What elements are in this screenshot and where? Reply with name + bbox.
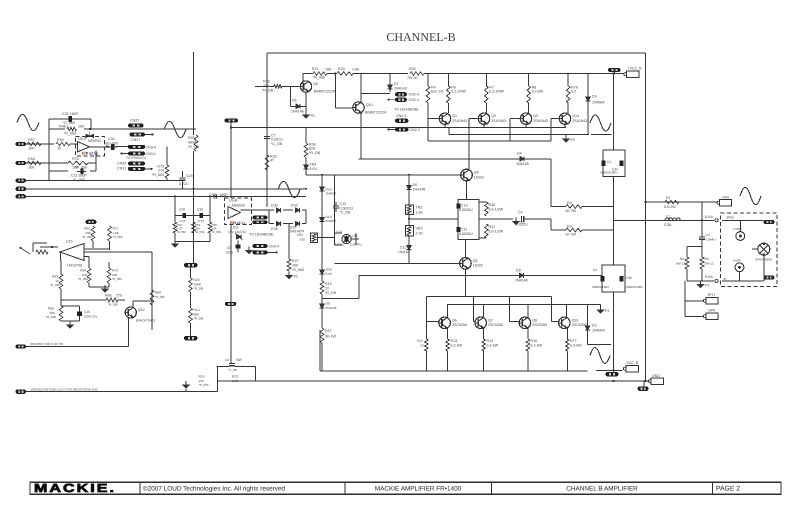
wire R16 bottom — [527, 351, 529, 371]
wire minus VCC vertical — [613, 292, 615, 372]
svg-text:CHANNEL-B: CHANNEL-B — [386, 30, 455, 44]
junction — [408, 218, 410, 220]
wire Q3 base — [510, 118, 520, 120]
wire — [217, 365, 218, 367]
wire — [408, 190, 410, 205]
label R19 — [199, 375, 209, 388]
resistor R71 — [313, 72, 327, 76]
resistor R68 — [150, 290, 154, 305]
label R68 — [155, 291, 164, 299]
connector J input4 — [16, 187, 27, 191]
svg-text:R14: R14 — [487, 339, 494, 343]
svg-text:D4: D4 — [517, 152, 522, 156]
svg-text:+SPK: +SPK — [721, 196, 730, 200]
sine waveform — [590, 347, 610, 363]
svg-text:D5: D5 — [326, 302, 330, 306]
wire D7 top — [389, 74, 391, 85]
wire — [596, 369, 623, 371]
wire base bus — [428, 140, 551, 142]
wire bottom long bus — [218, 380, 650, 382]
svg-text:270: 270 — [116, 294, 122, 298]
svg-text:R30: R30 — [489, 203, 496, 207]
wire Q10 collector — [360, 74, 362, 102]
label C1 value — [600, 171, 618, 175]
label R63 — [50, 275, 60, 288]
label D13 — [326, 188, 337, 196]
wire zobel left — [686, 247, 688, 257]
svg-text:L1: L1 — [666, 215, 670, 219]
wire — [61, 320, 80, 322]
svg-text:CN3-4: CN3-4 — [146, 145, 156, 149]
svg-text:TO LED48(OB): TO LED48(OB) — [394, 108, 419, 112]
ground zobel — [697, 281, 709, 288]
resistor R4h — [566, 205, 582, 209]
label NE5532b — [232, 204, 245, 208]
wire to CN34 — [116, 146, 129, 148]
input network U15 — [19, 243, 58, 254]
svg-text:15032: 15032 — [474, 175, 484, 179]
connector J input2 — [16, 161, 27, 165]
wire Q15 collector — [566, 304, 568, 317]
svg-text:*R_069: *R_069 — [195, 230, 205, 234]
resistor R1 — [665, 200, 679, 204]
label R13 — [451, 339, 463, 348]
label R4h — [565, 201, 577, 213]
wire — [479, 237, 486, 239]
svg-text:P1: P1 — [705, 284, 709, 288]
label R28 — [262, 80, 274, 93]
resistor R20 — [189, 278, 193, 292]
resistor R31 — [485, 224, 489, 238]
sine waveform — [17, 114, 39, 130]
ground right of Q15 — [597, 306, 609, 313]
svg-text:5.6-1/2W: 5.6-1/2W — [489, 208, 504, 212]
label C6 — [226, 246, 233, 255]
connector plug -SPK — [704, 309, 719, 320]
wire — [118, 299, 125, 301]
resistor R4 — [426, 86, 443, 104]
label *C_065 — [63, 121, 75, 125]
sine waveform — [278, 181, 300, 197]
svg-text:NE5532: NE5532 — [232, 204, 245, 208]
svg-text:−: − — [77, 246, 79, 250]
svg-text:JP: JP — [723, 277, 727, 281]
svg-text:R70: R70 — [72, 157, 79, 161]
label R5h — [565, 225, 577, 237]
svg-text:TO PROP.CU: TO PROP.CU — [126, 156, 147, 160]
ground near C4 — [513, 218, 525, 225]
svg-text:3W-12: 3W-12 — [676, 262, 685, 266]
wire long bus y189 — [26, 188, 307, 190]
connector bar x231 — [225, 118, 239, 122]
connector CN3-6 — [253, 220, 268, 224]
label D9 — [515, 269, 528, 283]
svg-text:1=0R+: 1=0R+ — [733, 227, 742, 231]
svg-text:1N4148: 1N4148 — [413, 188, 426, 192]
wire — [92, 241, 94, 248]
capacitor C7 — [264, 133, 283, 146]
resistor R72 — [107, 268, 111, 283]
label C12 — [340, 202, 354, 215]
connector plug +SPK — [717, 196, 732, 206]
label R16 — [531, 339, 543, 348]
svg-text:D7: D7 — [394, 82, 399, 86]
svg-text:5.6-2W: 5.6-2W — [664, 205, 676, 209]
svg-text:10K: 10K — [28, 166, 35, 170]
connector CN3-0 — [253, 250, 278, 254]
svg-text:*R_DB: *R_DB — [194, 287, 203, 291]
wire — [479, 218, 513, 220]
wire Q1 base — [428, 118, 439, 120]
wire L1 line — [614, 219, 715, 221]
label D5 — [326, 302, 337, 311]
wire — [107, 146, 110, 148]
resistor R29 — [337, 72, 353, 76]
svg-text:*R_DB: *R_DB — [194, 317, 203, 321]
transistor Q4 — [461, 169, 484, 181]
ground on return line — [183, 381, 189, 388]
svg-text:MACKIE AMPLIFIER FR•1400: MACKIE AMPLIFIER FR•1400 — [375, 486, 462, 493]
label C2 value — [592, 285, 610, 289]
wire C31 right — [90, 119, 92, 129]
wire — [701, 247, 703, 257]
capacitor C29 — [179, 171, 193, 189]
wire C31 left — [48, 119, 50, 144]
wire emitter stub — [444, 124, 446, 127]
resistor R63 — [59, 274, 63, 289]
diode D13 — [320, 187, 325, 197]
wire — [88, 162, 96, 164]
svg-text:P200: P200 — [705, 275, 713, 279]
svg-text:CN31: CN31 — [117, 167, 126, 171]
wire D8 top — [408, 174, 410, 186]
svg-text:3300U/100V: 3300U/100V — [592, 285, 610, 289]
label D18 — [326, 215, 337, 223]
wire — [235, 365, 256, 367]
wire Q8 base drop — [509, 297, 511, 322]
resistor R5h — [566, 228, 582, 232]
transistor Q1 — [439, 113, 467, 124]
transistor Q9 — [300, 81, 317, 92]
svg-text:B04BT2222A: B04BT2222A — [365, 111, 387, 115]
wire — [408, 215, 410, 226]
svg-text:2SA1943: 2SA1943 — [452, 119, 467, 123]
svg-text:1N4148: 1N4148 — [398, 250, 409, 254]
svg-text:*R_065: *R_065 — [78, 277, 88, 281]
svg-text:C8: C8 — [225, 358, 229, 362]
svg-text:2SA1943: 2SA1943 — [533, 119, 548, 123]
wire to U5-A — [70, 143, 77, 145]
wire left rail upper — [193, 52, 195, 135]
wire — [763, 256, 765, 281]
wire — [230, 258, 232, 302]
svg-text:0.2-2/9W: 0.2-2/9W — [489, 90, 504, 94]
junction — [612, 380, 614, 382]
transistor Q15 — [559, 317, 587, 329]
wire servo bottom — [175, 233, 210, 242]
connector CN31 — [128, 167, 153, 171]
label TO LED48 b — [249, 233, 274, 237]
wire to Q10 base — [334, 74, 336, 109]
resistor R13 — [446, 339, 450, 351]
wire Q8 collector — [527, 304, 529, 317]
wire Q9 emitter — [305, 92, 307, 113]
wire — [334, 233, 336, 245]
wire Q9 base left — [255, 85, 274, 87]
diode D7 — [388, 82, 393, 92]
connector plug -VCC_B — [624, 361, 639, 372]
wire to servo bar — [193, 242, 195, 262]
svg-text:PAGE 2: PAGE 2 — [716, 486, 740, 493]
svg-text:+VCC_B: +VCC_B — [628, 67, 643, 71]
svg-text:R5: R5 — [567, 225, 572, 229]
wire Q4 emitter — [466, 181, 468, 200]
wire D3 top — [587, 74, 589, 97]
wire Q9 base — [282, 85, 301, 87]
wire — [290, 105, 296, 107]
wire — [269, 209, 274, 211]
wire — [335, 244, 343, 246]
label R71b — [113, 227, 123, 240]
transistor Q3 — [520, 113, 548, 124]
wire — [356, 238, 359, 240]
transistor Q14 — [559, 113, 587, 124]
connector CN3-4 — [128, 145, 156, 150]
label JP — [723, 277, 727, 281]
transistor Q5 — [460, 258, 483, 270]
wire — [550, 219, 552, 230]
svg-text:+: + — [79, 148, 81, 152]
label R26 — [407, 67, 418, 80]
dashed output box — [721, 213, 778, 287]
svg-text:R16: R16 — [531, 339, 538, 343]
wire — [89, 286, 109, 288]
svg-text:Q5: Q5 — [473, 259, 478, 263]
wire feedback bus — [84, 128, 196, 130]
wire — [722, 219, 740, 221]
svg-text:1N4004: 1N4004 — [592, 329, 605, 333]
wire Q7 base drop — [473, 297, 475, 322]
label *R_065 — [64, 132, 76, 136]
resistor R64 — [28, 157, 42, 169]
svg-text:R25: R25 — [188, 136, 195, 140]
svg-text:1K-7W: 1K-7W — [565, 233, 577, 237]
wire Q10 emitter — [360, 113, 362, 159]
svg-text:6.2-5W: 6.2-5W — [451, 344, 463, 348]
footer bar — [30, 482, 781, 494]
svg-text:GND: GND — [652, 374, 660, 378]
wire return line — [26, 391, 218, 393]
svg-text:1N4148: 1N4148 — [326, 306, 337, 310]
svg-text:U5-A: U5-A — [78, 137, 87, 141]
connector plug GND — [649, 374, 664, 385]
wire sine overline — [588, 344, 612, 346]
wire left rail lower — [193, 151, 195, 263]
svg-text:2=0R-: 2=0R- — [733, 259, 742, 263]
svg-text:C1: C1 — [607, 160, 611, 164]
svg-text:*R_DB: *R_DB — [262, 89, 274, 93]
svg-text:R77: R77 — [570, 339, 577, 343]
wire — [85, 249, 110, 257]
svg-text:0.2-2/9W: 0.2-2/9W — [451, 90, 466, 94]
wire — [358, 275, 360, 298]
label R3 — [705, 257, 714, 266]
wire inv input — [95, 151, 97, 164]
wire — [302, 223, 306, 225]
svg-text:*R_065: *R_065 — [108, 303, 118, 307]
wire Q2 base — [469, 118, 478, 120]
terminal E200 — [705, 275, 718, 283]
wire emitter stub — [564, 124, 566, 127]
connector J input3 — [16, 178, 27, 182]
svg-text:47K: 47K — [263, 84, 270, 88]
wire — [567, 74, 569, 87]
connector J input5 — [16, 194, 27, 198]
wire Q12 emitter — [128, 318, 130, 347]
svg-text:6.2-5W: 6.2-5W — [570, 344, 582, 348]
resistor R73 — [152, 165, 169, 179]
svg-text:5.6V: 5.6V — [310, 167, 318, 171]
svg-text:R48: R48 — [59, 125, 66, 129]
resistor R7 — [485, 86, 505, 104]
box C2 — [602, 265, 625, 292]
wire Q9 collector — [302, 74, 304, 81]
connector CN2-4 lower — [387, 98, 418, 102]
svg-text:R28: R28 — [263, 80, 270, 84]
svg-text:D11: D11 — [400, 246, 406, 250]
label D32 — [291, 204, 298, 208]
wire — [61, 299, 106, 301]
svg-text:*R_DB: *R_DB — [188, 145, 200, 149]
resistor R33 — [265, 155, 276, 171]
svg-text:*R_065: *R_065 — [112, 277, 122, 281]
wire — [528, 74, 530, 87]
svg-text:*R_065: *R_065 — [50, 283, 60, 287]
connector CN32 — [128, 162, 145, 166]
wire — [48, 144, 50, 181]
svg-text:3300U/100V: 3300U/100V — [600, 171, 618, 175]
wire — [582, 206, 614, 208]
svg-text:3300U/100V: 3300U/100V — [626, 285, 644, 289]
connector CN27 lower — [130, 133, 154, 143]
zener ZD3 — [320, 267, 325, 277]
ground near C6 — [246, 247, 258, 254]
label U5-A — [78, 137, 87, 141]
svg-text:2SC5200: 2SC5200 — [572, 323, 587, 327]
wire Q4 collector — [468, 141, 470, 170]
ground servo — [172, 242, 178, 248]
binding post 2 — [733, 259, 744, 272]
wire — [361, 73, 390, 75]
label NE5532 — [88, 139, 101, 143]
label D34 — [271, 227, 278, 231]
svg-text:56P: 56P — [236, 358, 243, 362]
wire — [108, 262, 110, 268]
wire R12 top — [425, 322, 427, 339]
capacitor C4 — [513, 211, 551, 227]
transistor Q6 — [439, 317, 467, 329]
svg-text:2SA1943: 2SA1943 — [572, 119, 587, 123]
label R66 — [105, 294, 122, 298]
binding post 1 — [733, 227, 745, 240]
connector return — [16, 390, 27, 394]
trimmer TR2 — [406, 205, 424, 215]
label Q12 part — [136, 319, 155, 323]
wire — [427, 119, 429, 141]
ground under Q9 — [303, 111, 315, 118]
svg-text:10U-50V: 10U-50V — [104, 141, 119, 145]
label ZD3 — [326, 268, 334, 276]
wire E line — [687, 280, 714, 282]
svg-text:C4: C4 — [518, 211, 523, 215]
capacitor C11 — [77, 169, 86, 175]
wire — [701, 269, 703, 281]
label ZD4 — [310, 163, 318, 172]
diode D18 — [320, 215, 325, 225]
svg-text:Q6: Q6 — [452, 318, 457, 322]
svg-text:CN3-1: CN3-1 — [146, 152, 156, 156]
capacitor C1 — [602, 160, 612, 166]
wire bridge in — [241, 209, 270, 211]
sine waveform — [740, 187, 761, 204]
svg-text:Q7: Q7 — [488, 318, 493, 322]
svg-text:1K: 1K — [57, 147, 62, 151]
label R72 — [112, 269, 122, 282]
svg-text:Q12: Q12 — [138, 308, 145, 312]
svg-text:P1: P1 — [605, 309, 609, 313]
label R10 — [194, 308, 203, 321]
svg-text:6.2-5W: 6.2-5W — [487, 344, 499, 348]
wire mid y219 — [409, 218, 458, 220]
resistor R17 — [320, 328, 324, 343]
wire bus y275 — [359, 274, 602, 276]
svg-text:COIL: COIL — [664, 223, 672, 227]
wire speaker plus — [646, 201, 717, 203]
ground under R27 — [286, 272, 298, 279]
label R65 — [46, 307, 56, 320]
svg-text:22: 22 — [325, 287, 329, 291]
svg-text:1N4148: 1N4148 — [516, 162, 529, 166]
resistor R52 — [192, 222, 205, 234]
wire Q15 base drop — [550, 297, 552, 322]
svg-text:R59: R59 — [57, 138, 64, 142]
svg-text:U5-B: U5-B — [229, 199, 238, 203]
svg-text:*C_DB: *C_DB — [340, 211, 352, 215]
wire — [643, 381, 645, 388]
svg-text:*R_065: *R_065 — [152, 173, 164, 177]
junction — [645, 201, 647, 203]
svg-text:3W-12: 3W-12 — [705, 262, 714, 266]
wire Q6 base drop — [425, 297, 427, 322]
svg-text:6.2-5W: 6.2-5W — [531, 344, 543, 348]
wire Q7 collector — [482, 304, 484, 317]
ground under R72 — [102, 285, 108, 292]
svg-text:D6: D6 — [413, 183, 418, 187]
capacitor C36b — [620, 276, 633, 282]
capacitor C30 — [197, 208, 204, 224]
svg-text:C28: C28 — [179, 208, 185, 212]
wire — [701, 202, 703, 234]
wire Q10 base — [335, 107, 353, 109]
wire bottom rail — [320, 370, 588, 372]
svg-text:1N4148: 1N4148 — [515, 279, 528, 283]
wire to R26 — [390, 73, 408, 75]
wire x322 bottom — [321, 343, 323, 371]
connector CN2-3 lower — [387, 127, 419, 132]
diode D30 — [276, 208, 280, 213]
potentiometer VR2 — [297, 233, 318, 243]
svg-text:C3: C3 — [706, 233, 710, 237]
